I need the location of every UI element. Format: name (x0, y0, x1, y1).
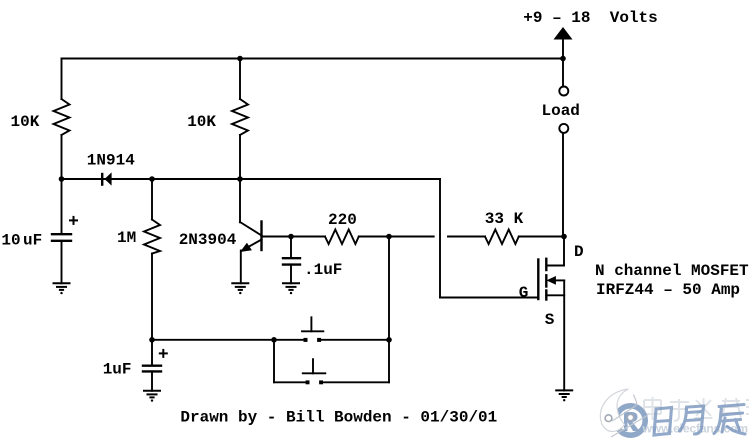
svg-text:IRFZ44 – 50 Amp: IRFZ44 – 50 Amp (596, 281, 740, 299)
svg-text:D: D (574, 243, 584, 261)
svg-text:Load: Load (542, 102, 580, 120)
svg-text:33 K: 33 K (485, 210, 524, 228)
svg-text:10: 10 (1, 232, 20, 250)
svg-text:1M: 1M (117, 229, 136, 247)
svg-text:uF: uF (23, 232, 42, 250)
svg-text:220: 220 (328, 211, 357, 229)
svg-text:.1uF: .1uF (304, 261, 342, 279)
svg-text:G: G (519, 284, 529, 302)
svg-text:1N914: 1N914 (87, 152, 135, 170)
svg-text:Drawn by - Bill Bowden - 01/30: Drawn by - Bill Bowden - 01/30/01 (180, 409, 497, 427)
svg-text:N channel MOSFET: N channel MOSFET (595, 262, 749, 280)
svg-text:2N3904: 2N3904 (179, 231, 237, 249)
svg-text:10K: 10K (11, 113, 40, 131)
svg-text:+9 – 18 Volts: +9 – 18 Volts (523, 9, 657, 27)
svg-text:10K: 10K (187, 113, 216, 131)
svg-text:1uF: 1uF (103, 361, 132, 379)
svg-text:S: S (545, 311, 555, 329)
